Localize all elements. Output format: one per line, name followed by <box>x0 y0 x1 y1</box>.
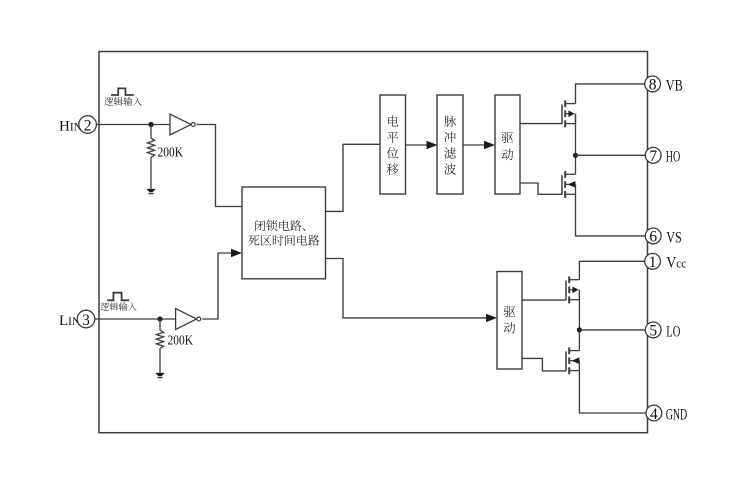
svg-text:1: 1 <box>649 254 657 271</box>
svg-text:2: 2 <box>84 117 92 134</box>
svg-text:VB: VB <box>666 77 683 94</box>
svg-text:6: 6 <box>649 229 657 246</box>
svg-text:5: 5 <box>649 323 657 340</box>
svg-text:3: 3 <box>82 312 90 329</box>
svg-text:200K: 200K <box>168 332 194 347</box>
svg-text:7: 7 <box>649 148 657 165</box>
svg-text:VS: VS <box>666 229 682 246</box>
svg-text:GND: GND <box>666 406 688 423</box>
svg-text:4: 4 <box>650 406 658 423</box>
svg-text:Vcc: Vcc <box>666 255 686 272</box>
svg-text:8: 8 <box>649 77 657 94</box>
svg-text:HO: HO <box>666 149 681 166</box>
svg-text:LO: LO <box>666 323 680 340</box>
svg-text:200K: 200K <box>158 144 184 159</box>
